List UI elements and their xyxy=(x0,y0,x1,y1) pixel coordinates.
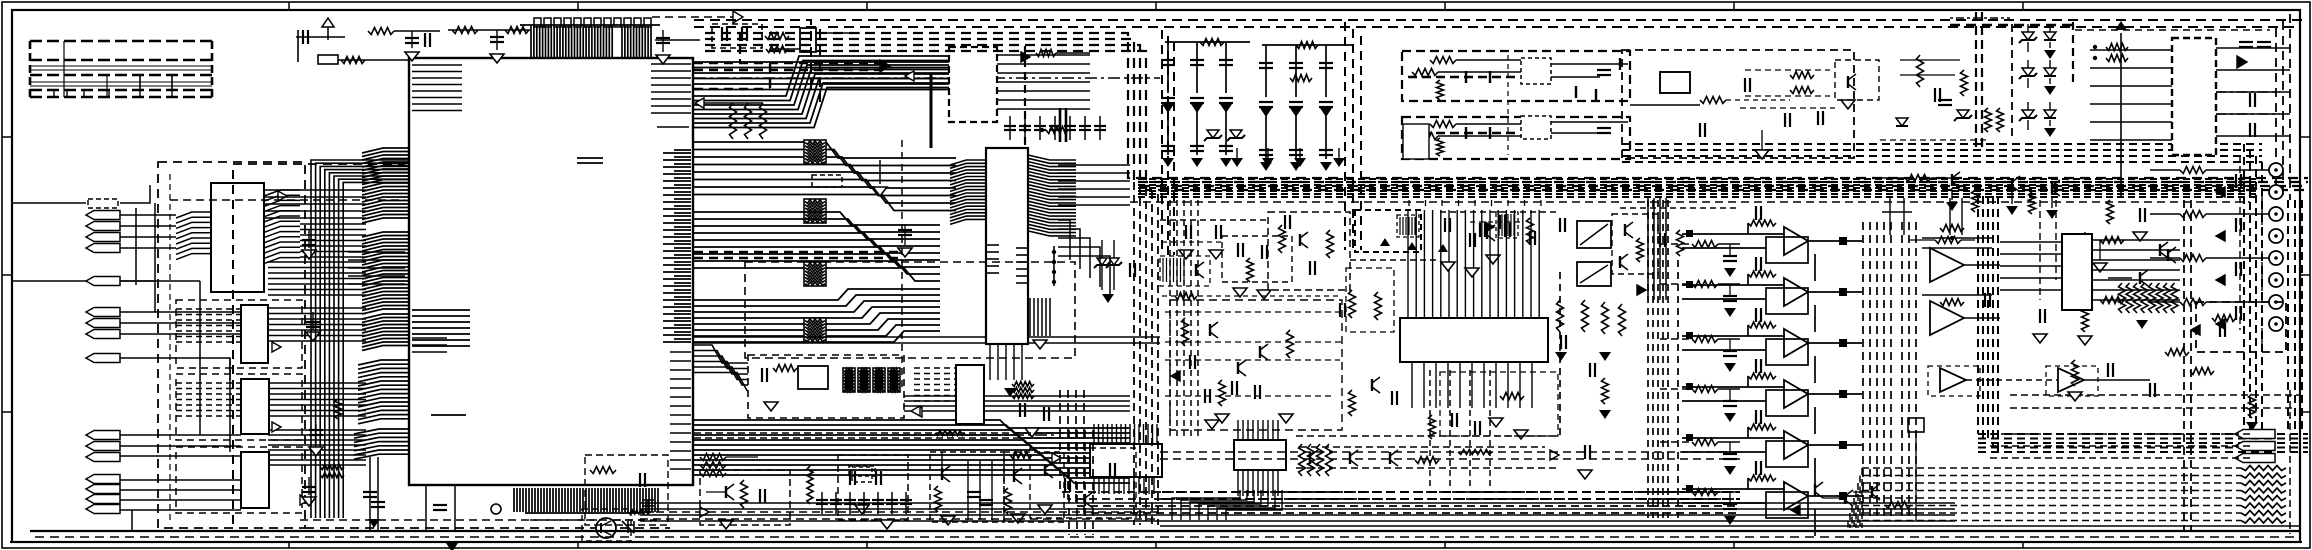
main ground bus xyxy=(30,530,2300,532)
resistor xyxy=(1430,57,1456,64)
IC pin bundle xyxy=(1408,210,1539,318)
dashed pill center xyxy=(852,467,872,482)
transistor xyxy=(1619,256,1621,268)
ground xyxy=(1724,363,1736,372)
dashed box U30 lower xyxy=(1440,372,1558,436)
capacitor xyxy=(1469,233,1471,247)
ferrite bead FB10 xyxy=(843,368,855,392)
small comb 2 xyxy=(1400,217,1415,235)
ferrite bead FB11 xyxy=(858,368,870,392)
dash-dot wire xyxy=(2216,113,2280,115)
long wire pair xyxy=(694,337,1160,343)
capacitor C54 xyxy=(1231,381,1233,395)
op-amp U7 xyxy=(1930,248,1964,282)
IC U8 small xyxy=(798,366,828,389)
ground xyxy=(941,516,955,525)
inductor L5 xyxy=(1290,75,1312,82)
arrow xyxy=(1637,285,1646,295)
transistor Q12 xyxy=(1259,346,1261,358)
capacitor xyxy=(1938,99,1952,101)
junction xyxy=(1839,237,1847,245)
resistor xyxy=(1375,292,1382,320)
long bottom line extra xyxy=(1160,525,2300,527)
capacitor xyxy=(2235,218,2237,232)
ground xyxy=(1260,108,1272,117)
IC U11 xyxy=(1521,116,1551,139)
dashed part xyxy=(1160,256,1210,286)
ground xyxy=(2068,392,2082,401)
IC U4 xyxy=(241,379,269,434)
resistor R23 xyxy=(1692,281,1718,288)
ground xyxy=(2006,206,2018,215)
connector pin P4 xyxy=(86,244,120,253)
bottom cluster B xyxy=(838,455,908,520)
power rail down wire xyxy=(2120,33,2122,196)
connector CN_top xyxy=(800,28,816,52)
power filter cluster xyxy=(296,36,345,38)
zener diode D2 xyxy=(1109,258,1119,265)
resistor xyxy=(1972,190,1979,212)
ground xyxy=(405,52,419,61)
capacitor C32 xyxy=(1289,101,1303,103)
ground xyxy=(1320,108,1332,117)
bus U2 to U1 b xyxy=(268,262,366,295)
cluster right of U7 xyxy=(1101,240,1103,290)
dashed wire xyxy=(2010,407,2295,409)
right mid T stubs xyxy=(1889,198,1891,235)
signal arrow xyxy=(880,60,890,72)
harness dashed leads xyxy=(1862,468,2241,521)
resistor RA0 xyxy=(2119,283,2126,313)
ground xyxy=(1257,290,1271,299)
capacitor C26 xyxy=(1219,97,1233,99)
border zone tick xyxy=(2022,542,2024,548)
connector pin P2 xyxy=(86,222,120,231)
border zone tick xyxy=(577,2,579,10)
resistor RA2 xyxy=(2134,283,2141,313)
power arrow xyxy=(322,18,334,27)
comb box xyxy=(1397,215,1419,237)
left enclosure extras xyxy=(232,170,234,528)
capacitor C53 xyxy=(1189,355,1191,369)
resistor RA7 xyxy=(2171,283,2178,313)
capacitor xyxy=(2235,306,2237,320)
capacitor xyxy=(844,499,856,501)
U7 interior stubs right xyxy=(1016,248,1028,283)
transistor Q2 bottom xyxy=(596,518,616,538)
resistor R42 xyxy=(1287,330,1294,358)
capacitor C6 xyxy=(656,37,670,39)
U5c bottom pins xyxy=(1094,477,1154,494)
dashed component xyxy=(812,175,842,187)
resistor RA4 xyxy=(2149,283,2156,313)
op-amp U4 xyxy=(1784,380,1808,408)
U7 left pins xyxy=(950,160,986,224)
dashed box U4 xyxy=(176,374,302,440)
dashed wire xyxy=(1300,446,1545,448)
frame bend-down at x815 xyxy=(694,20,811,95)
bold vertical wire xyxy=(930,74,933,148)
border zone tick xyxy=(866,542,868,548)
capacitor xyxy=(1094,125,1106,127)
transistor xyxy=(1299,234,1301,246)
capacitor C4 xyxy=(424,33,426,47)
capacitor C7 xyxy=(721,27,723,41)
connector pin P15 xyxy=(86,495,120,504)
transistor xyxy=(1486,227,1488,239)
dashed box xyxy=(1030,448,1136,518)
capacitor xyxy=(1204,389,1206,403)
ground xyxy=(302,250,316,259)
power arrow xyxy=(2115,21,2127,30)
resistor xyxy=(1010,452,1032,459)
border zone tick xyxy=(2300,274,2310,276)
wires op-amp outputs xyxy=(2084,379,2150,381)
capacitor C50 xyxy=(1659,233,1661,247)
U7 right pins xyxy=(1028,155,1076,236)
capacitor xyxy=(2149,383,2151,397)
transistor Q17 xyxy=(1814,484,1816,496)
resistor R27 xyxy=(1692,489,1718,496)
capacitor xyxy=(1254,385,1256,399)
capacitor xyxy=(872,499,884,501)
inductor vertical center xyxy=(807,466,813,504)
IC U9 xyxy=(956,365,984,424)
ground xyxy=(368,519,380,528)
resistor R41 xyxy=(1182,318,1189,346)
capacitor xyxy=(1109,463,1111,477)
filter column FC4 xyxy=(1265,45,1267,159)
ground xyxy=(2136,320,2148,329)
resistor xyxy=(1790,72,1814,79)
capacitor C27 xyxy=(1219,145,1233,147)
capacitor C3 xyxy=(405,37,419,39)
resistor xyxy=(2100,297,2124,304)
resistor xyxy=(2165,349,2189,356)
small box right-bottom xyxy=(1908,418,1924,432)
ground xyxy=(1946,202,1958,211)
ground xyxy=(1555,352,1567,361)
ferrite bead FB3 xyxy=(804,262,826,286)
ground xyxy=(2093,263,2107,272)
transistor xyxy=(1084,494,1086,506)
capacitor xyxy=(1064,478,1066,492)
inductor L2 xyxy=(505,27,529,34)
capacitor C16 xyxy=(1019,403,1021,417)
resistor R26 xyxy=(1692,439,1718,446)
nested dashed bus frames top-right xyxy=(705,33,2308,190)
dashed wire xyxy=(1745,69,1830,71)
ground xyxy=(1599,410,1611,419)
transistor Q4 xyxy=(2011,178,2013,190)
capacitor xyxy=(1755,461,1757,475)
resistor xyxy=(1219,380,1226,406)
resistor xyxy=(2082,308,2089,332)
bold dashed wire xyxy=(1408,132,1515,134)
connector pin P19 xyxy=(2235,454,2275,463)
filter column FC5 xyxy=(1295,45,1297,159)
bus U1 to U6 group A xyxy=(694,56,949,128)
transistor Q14 xyxy=(1309,452,1311,464)
ground xyxy=(1209,250,1223,259)
capacitor C20 xyxy=(1161,97,1175,99)
transistor Q1 xyxy=(725,486,727,498)
ground xyxy=(1290,162,1302,171)
capacitor C45 xyxy=(1185,225,1187,239)
op-amp U21 feedback xyxy=(1922,294,1992,296)
wire xyxy=(12,202,86,204)
feedback resistor xyxy=(1748,373,1776,379)
dashed box mid xyxy=(748,355,904,418)
transistor xyxy=(1044,464,1046,476)
ferrite bead FB12 xyxy=(873,368,885,392)
ground xyxy=(1205,420,1219,429)
capacitor C25 xyxy=(1219,59,1233,61)
resistor R22 xyxy=(1692,241,1718,248)
transistor Q13 xyxy=(1371,379,1373,391)
resistor R52 xyxy=(700,470,726,477)
transistor Q1 xyxy=(941,468,943,480)
capacitor xyxy=(1004,125,1016,127)
box2 interior extras xyxy=(1835,60,1879,100)
dashed wire xyxy=(2011,24,2013,140)
wire xyxy=(1551,63,1628,65)
optocoupler boxes xyxy=(1577,221,1611,248)
transistor xyxy=(1195,264,1197,276)
border zone tick xyxy=(288,542,290,548)
resistor R20 xyxy=(2180,255,2206,262)
comb box 2 xyxy=(1496,212,1518,238)
zener diode D9 xyxy=(2022,110,2034,118)
ferrite bead FB13 xyxy=(888,368,900,392)
cap columns bottom mid xyxy=(967,460,969,520)
capacitor xyxy=(1529,231,1531,245)
U13 right wires xyxy=(2216,48,2290,136)
ground xyxy=(1724,516,1736,525)
upper dashed band right xyxy=(1622,144,2262,430)
IC U1 left pin stubs xyxy=(412,65,462,111)
border zone tick xyxy=(288,2,290,10)
junction xyxy=(1839,441,1847,449)
capacitor xyxy=(900,499,912,501)
U40 left wires xyxy=(2000,242,2062,290)
extra wire stubs top of left ICs xyxy=(264,190,366,218)
capacitor C35 xyxy=(1319,101,1333,103)
dashed pair with squiggle xyxy=(694,432,1086,434)
dashed box xyxy=(1612,214,1658,274)
capacitor C24 xyxy=(1190,145,1204,147)
IC U12 xyxy=(1660,72,1690,93)
resistor R43 xyxy=(1349,390,1356,416)
wavy trio xyxy=(1458,450,1492,455)
ground xyxy=(880,520,894,529)
bus U1 to U7 group B xyxy=(694,142,956,211)
transistor Q11 xyxy=(1209,324,1211,336)
jack J4 xyxy=(2269,229,2283,243)
resistor R36 xyxy=(1429,415,1436,439)
resistor R7 xyxy=(745,103,752,139)
nested dashed Ls to bottom rows xyxy=(1060,390,1740,513)
resistor R32 xyxy=(1327,230,1334,258)
op-amp U2 xyxy=(1784,278,1808,306)
dashed vertical xyxy=(1507,55,1509,155)
ground xyxy=(2078,336,2092,345)
resistor xyxy=(1437,138,1444,156)
capacitor xyxy=(1755,359,1757,373)
capacitor xyxy=(1755,206,1757,220)
revision table xyxy=(30,41,212,97)
bus group D xyxy=(694,289,940,342)
stepped fan to mid cluster xyxy=(694,345,748,391)
pin 1 mark xyxy=(491,504,501,514)
resistor R45 xyxy=(1582,300,1589,332)
ground xyxy=(1441,262,1455,271)
ground xyxy=(1724,268,1736,277)
resistor R17 xyxy=(1997,108,2004,132)
capacitor C39 xyxy=(1723,350,1737,352)
arrow xyxy=(1550,450,1559,460)
capacitor C57 xyxy=(1589,363,1591,377)
capacitor C59 xyxy=(371,501,385,503)
wire xyxy=(1551,132,1610,134)
U7 right wires xyxy=(1058,165,1130,296)
ground xyxy=(1191,104,1203,113)
resistor xyxy=(1247,258,1254,282)
border zone tick xyxy=(1733,2,1735,10)
filter column FC3 xyxy=(1225,42,1227,155)
harness flag leads xyxy=(1990,433,2250,435)
capacitor xyxy=(1049,125,1061,127)
capacitor C1 xyxy=(433,504,447,506)
IC U1 right pin stubs c xyxy=(663,153,691,342)
capacitor C21 xyxy=(1161,145,1175,147)
bold dashed power lines xyxy=(1950,24,2075,26)
zener diode D4 xyxy=(1230,130,1242,138)
U7 interior stubs left xyxy=(987,245,999,273)
cap row bottom center xyxy=(822,492,906,514)
capacitor xyxy=(1559,218,1561,232)
capacitor xyxy=(1237,243,1239,257)
border zone tick xyxy=(866,2,868,10)
cluster dashed box xyxy=(1268,212,1350,290)
right edge frame verticals xyxy=(2276,14,2290,200)
vertical dashed columns bottom-center xyxy=(1560,200,1678,518)
ground xyxy=(1489,418,1503,427)
U31 pin fan xyxy=(1172,490,1282,520)
capacitor C56 xyxy=(1560,335,1562,349)
ground xyxy=(1220,104,1232,113)
caps cluster below herringbone xyxy=(369,457,371,531)
transistor Q8 xyxy=(2139,272,2141,284)
ground xyxy=(1465,268,1479,277)
decoupling capacitors row xyxy=(534,18,651,27)
ground xyxy=(1260,162,1272,171)
wire xyxy=(338,59,409,61)
dash-dot wire bottom xyxy=(897,434,1058,436)
capacitor C31 xyxy=(1289,62,1303,64)
capacitor xyxy=(830,499,842,501)
dashed bus into U9 xyxy=(914,368,956,401)
wire xyxy=(12,280,155,282)
cap row below U6 xyxy=(1010,116,1100,140)
junction xyxy=(1839,288,1847,296)
resistor R9 xyxy=(773,365,797,372)
dash-dot wire xyxy=(2216,91,2280,93)
ground xyxy=(1220,158,1232,167)
right edge dashed verticals long xyxy=(2183,200,2185,530)
ground xyxy=(1724,308,1736,317)
IC U1 left pin bundle xyxy=(358,360,409,424)
transistor Q19 xyxy=(1871,486,1873,498)
signal arrow xyxy=(695,98,704,108)
resistor R1 xyxy=(341,57,365,64)
ground xyxy=(1025,428,1039,437)
capacitor C43 xyxy=(1984,293,1986,307)
resistor R40 xyxy=(1326,444,1333,476)
capacitor xyxy=(2249,123,2251,137)
ground xyxy=(1599,352,1611,361)
resistor R15 xyxy=(1961,70,1968,96)
capacitor C13 xyxy=(759,489,761,503)
border zone tick xyxy=(2022,2,2024,10)
capacitor xyxy=(1755,257,1757,271)
dashed vertical xyxy=(1024,46,1026,145)
feedback resistor xyxy=(1748,424,1776,430)
dashed box bottom center-left xyxy=(582,509,631,541)
wavy wire xyxy=(935,431,965,436)
IC U31 xyxy=(1234,440,1286,470)
resistor xyxy=(2029,192,2036,214)
dashed wire xyxy=(530,519,660,521)
signal arrow xyxy=(2216,187,2225,197)
resistor R13 xyxy=(1005,488,1012,514)
dashed wire xyxy=(169,174,171,520)
capacitor xyxy=(858,499,870,501)
IC U1 top pin bundle xyxy=(622,26,651,58)
capacitor xyxy=(2235,262,2237,276)
ground xyxy=(1279,414,1293,423)
U2 right pin bundle xyxy=(264,190,300,264)
ground xyxy=(2044,86,2056,95)
resistor R48 xyxy=(1602,378,1609,404)
bus U2 to U1 xyxy=(300,224,366,257)
capacitor C17 xyxy=(1043,407,1045,421)
bottom cluster A xyxy=(700,470,790,525)
resistor xyxy=(2106,44,2128,51)
sub box xyxy=(1403,124,1429,159)
border zone tick xyxy=(2300,411,2310,413)
bus group C xyxy=(694,212,940,281)
ground xyxy=(1486,255,1500,264)
dashed wire xyxy=(1296,467,1560,469)
resistor R35 xyxy=(1500,393,1524,400)
border zone tick xyxy=(1444,542,1446,548)
capacitor xyxy=(1444,218,1446,232)
capacitor C34 xyxy=(1319,62,1333,64)
diode D6 xyxy=(2044,32,2056,40)
op-amp U5 xyxy=(1784,431,1808,459)
resistor R39 xyxy=(1317,444,1324,476)
resistor R34 xyxy=(1637,238,1644,262)
transistor Q16 xyxy=(1389,452,1391,464)
resistor R51 xyxy=(700,462,726,469)
connector pin P6 xyxy=(86,308,120,317)
capacitor C42 xyxy=(1723,503,1737,505)
resistor R28 xyxy=(1935,237,1961,244)
dashed vertical wire xyxy=(901,140,903,390)
jack J6 xyxy=(2269,273,2283,287)
capacitor C9 xyxy=(302,239,316,241)
